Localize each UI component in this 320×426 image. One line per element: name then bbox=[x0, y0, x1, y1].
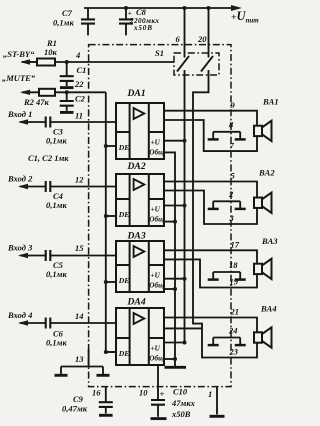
svg-text:24: 24 bbox=[228, 325, 238, 335]
wire ST-BY input arrow bbox=[22, 61, 37, 63]
svg-text:23: 23 bbox=[229, 347, 239, 357]
op-amp DA4 bbox=[116, 297, 164, 366]
ground (channel 1 left) bbox=[208, 138, 219, 141]
wire DA4 out+ (pin 21) to BA4 bbox=[164, 318, 257, 333]
ground (channel 4 left) bbox=[208, 344, 219, 347]
svg-text:21: 21 bbox=[230, 307, 240, 317]
wire pin 24 ground link of channel 4 bbox=[213, 338, 240, 345]
svg-text:S1: S1 bbox=[155, 48, 164, 58]
svg-text:BA1: BA1 bbox=[262, 97, 279, 107]
junction ground bus DA3 bbox=[173, 287, 177, 291]
svg-text:15: 15 bbox=[75, 243, 84, 253]
svg-text:9: 9 bbox=[231, 100, 236, 110]
ground (channel 3 left) bbox=[208, 278, 219, 281]
svg-text:+U: +U bbox=[151, 206, 161, 214]
wire DA1 Общ starting ground bus bbox=[164, 152, 175, 367]
switch S1.1 lower terminal (bus +U to DA blocks) bbox=[184, 70, 186, 343]
junction rail-C8 bbox=[124, 6, 128, 10]
wire C3 to DA1 input bbox=[50, 121, 116, 123]
svg-text:13: 13 bbox=[75, 354, 84, 364]
svg-text:C1: C1 bbox=[77, 65, 87, 75]
svg-text:Общ: Общ bbox=[149, 282, 164, 290]
wire R1 to pin 4 and S1 bbox=[55, 61, 174, 63]
ground (channel 4 right) bbox=[235, 344, 246, 347]
junction DE bus to DA2 bbox=[104, 214, 108, 218]
svg-text:0,1мк: 0,1мк bbox=[46, 136, 67, 146]
svg-text:0,1мк: 0,1мк bbox=[46, 269, 67, 279]
junction +U bus DA1 bbox=[183, 139, 187, 143]
junction C1 bbox=[65, 60, 69, 64]
svg-text:BA4: BA4 bbox=[260, 303, 277, 313]
junction ground bus DA2 bbox=[173, 220, 177, 224]
svg-text:6: 6 bbox=[176, 34, 181, 44]
svg-text:DA2: DA2 bbox=[127, 161, 146, 172]
junction DE bus to DA4 bbox=[104, 350, 108, 354]
svg-text:C9: C9 bbox=[73, 394, 84, 404]
svg-text:DE: DE bbox=[118, 143, 130, 152]
capacitor C5 (series input) bbox=[46, 250, 51, 261]
wire input 4 arrow bbox=[20, 322, 45, 324]
svg-text:4: 4 bbox=[75, 50, 80, 60]
speaker BA3 bbox=[254, 259, 272, 279]
svg-text:R2 47к: R2 47к bbox=[23, 97, 50, 107]
wire DA2 Общ to ground bus bbox=[164, 221, 175, 223]
svg-text:„MUTE”: „MUTE” bbox=[2, 73, 36, 83]
capacitor C9 bbox=[105, 387, 107, 402]
svg-text:+: + bbox=[160, 389, 165, 399]
svg-text:17: 17 bbox=[231, 240, 240, 250]
wire DA3 out+ (pin 17) to BA3 bbox=[164, 250, 257, 263]
switch S1.2 lower terminal (bus +U2) bbox=[193, 70, 209, 328]
svg-text:7: 7 bbox=[230, 140, 235, 150]
resistor R1 bbox=[37, 59, 55, 66]
wire C6 to DA4 input bbox=[50, 322, 116, 324]
svg-text:0,1мк: 0,1мк bbox=[53, 18, 74, 28]
speaker BA2 bbox=[254, 193, 272, 213]
svg-text:47мкх: 47мкх bbox=[171, 398, 196, 408]
wire +Uпит to S1.1 (pin 6 feed) bbox=[184, 8, 186, 58]
wire C5 to DA3 input bbox=[50, 255, 116, 257]
svg-text:C7: C7 bbox=[62, 8, 73, 18]
svg-text:C2: C2 bbox=[75, 94, 86, 104]
wire input 2 arrow bbox=[20, 186, 45, 188]
svg-text:+U: +U bbox=[151, 139, 161, 147]
ground (C9) bbox=[99, 414, 113, 417]
ground (C2) bbox=[60, 111, 74, 114]
switch S1.1 contact bbox=[177, 56, 189, 72]
svg-text:0,1мк: 0,1мк bbox=[46, 200, 67, 210]
capacitor C2 bbox=[66, 92, 68, 101]
svg-text:14: 14 bbox=[75, 311, 84, 321]
speaker BA4 bbox=[254, 327, 272, 347]
wire DA2 out+ (pin 5) to BA2 bbox=[164, 182, 257, 198]
svg-text:C8: C8 bbox=[136, 7, 147, 17]
svg-text:8: 8 bbox=[229, 120, 234, 130]
wire DA3 Общ to ground bus bbox=[164, 288, 175, 290]
resistor R2 bbox=[39, 89, 55, 96]
op-amp DA3 bbox=[116, 231, 164, 293]
svg-text:DE: DE bbox=[118, 210, 130, 219]
op-amp DA1 bbox=[116, 88, 164, 159]
wire DA1 out- (pin 7) to BA1 bbox=[164, 120, 257, 151]
svg-text:Вход 3: Вход 3 bbox=[7, 243, 33, 253]
svg-text:0,47мк: 0,47мк bbox=[62, 404, 88, 414]
node +Uпит arrow and label bbox=[231, 5, 242, 11]
svg-text:10к: 10к bbox=[44, 47, 58, 57]
capacitor C4 (series input) bbox=[46, 181, 51, 192]
wire pin 2 ground link of channel 2 bbox=[213, 201, 240, 208]
ground (channel 1 right) bbox=[235, 138, 246, 141]
wire DA2 out- (pin 3) to BA2 bbox=[164, 191, 257, 225]
wire pin 18 ground link of channel 3 bbox=[213, 272, 240, 279]
ground (C10) bbox=[151, 417, 167, 420]
wire input 1 arrow bbox=[20, 121, 45, 123]
wire C4 to DA2 input bbox=[50, 186, 116, 188]
wire DA4 +U to supply bus bbox=[164, 342, 185, 344]
junction +U bus DA3 bbox=[183, 277, 187, 281]
wire pin 1 to ground bbox=[216, 387, 218, 415]
wire DA4 Общ to ground bus bbox=[164, 358, 175, 360]
wire DE bus to DA2 DE input bbox=[106, 215, 116, 217]
svg-text:BA2: BA2 bbox=[258, 167, 275, 177]
svg-text:22: 22 bbox=[74, 79, 84, 89]
ground (C1) bbox=[60, 86, 74, 89]
svg-text:Общ: Общ bbox=[149, 216, 164, 224]
svg-text:20: 20 bbox=[197, 34, 207, 44]
capacitor C6 (series input) bbox=[46, 318, 51, 329]
svg-text:DA4: DA4 bbox=[127, 297, 146, 308]
wire DA3 out- (pin 19) to BA3 bbox=[164, 259, 257, 287]
svg-text:Вход 1: Вход 1 bbox=[7, 109, 32, 119]
wire input 3 arrow bbox=[20, 255, 45, 257]
junction rail-S1.1 bbox=[183, 6, 187, 10]
wire DE bus to DA4 DE input bbox=[106, 351, 116, 353]
junction C2 bbox=[65, 90, 69, 94]
capacitor C3 (series input) bbox=[46, 117, 51, 128]
wire DE bus to DA1 DE input bbox=[106, 145, 116, 147]
capacitor C10 (electrolytic) bbox=[157, 387, 159, 400]
op-amp DA2 bbox=[116, 161, 164, 226]
wire DA4 out- (pin 23) to BA4 bbox=[164, 328, 257, 357]
wire pin 13 to ground bbox=[61, 349, 103, 374]
ground (pin 1) bbox=[210, 415, 225, 418]
ground (channel 2 right) bbox=[235, 208, 246, 211]
switch S1 enclosure (dash-dot) bbox=[174, 53, 219, 75]
svg-text:Вход 2: Вход 2 bbox=[7, 174, 33, 184]
svg-text:DE: DE bbox=[118, 276, 130, 285]
svg-text:10: 10 bbox=[139, 388, 148, 398]
wire DA1 out+ (pin 9) to BA1 bbox=[164, 111, 257, 126]
svg-text:BA3: BA3 bbox=[261, 236, 278, 246]
svg-text:2: 2 bbox=[228, 189, 234, 199]
ground (pin 13 right) bbox=[97, 374, 110, 377]
svg-text:18: 18 bbox=[229, 260, 238, 270]
svg-text:х50В: х50В bbox=[133, 24, 152, 32]
wire DA3 +U to supply bus bbox=[164, 278, 185, 280]
svg-text:1: 1 bbox=[208, 389, 212, 399]
junction ground bus DA4 bbox=[173, 357, 177, 361]
ground (channel 2 left) bbox=[208, 208, 219, 211]
svg-text:+U: +U bbox=[151, 272, 161, 280]
capacitor C1 bbox=[66, 62, 68, 76]
bus DE (mute control to DA1-DA4) bbox=[106, 92, 116, 352]
wire MUTE input arrow bbox=[22, 91, 39, 93]
svg-text:16: 16 bbox=[92, 388, 101, 398]
wire DA2 +U to supply bus bbox=[164, 205, 185, 207]
speaker BA1 bbox=[254, 121, 272, 141]
svg-text:Вход 4: Вход 4 bbox=[7, 310, 32, 320]
svg-text:3: 3 bbox=[229, 213, 235, 223]
wire DE bus to DA3 DE input bbox=[106, 281, 116, 283]
junction DE bus to DA1 bbox=[104, 144, 108, 148]
svg-text:C10: C10 bbox=[173, 387, 188, 397]
wire R2 to pin 22 and DE bus bbox=[55, 91, 106, 93]
svg-text:11: 11 bbox=[75, 111, 83, 121]
svg-text:19: 19 bbox=[230, 277, 239, 287]
svg-text:DA3: DA3 bbox=[127, 231, 146, 242]
svg-text:+Uпит: +Uпит bbox=[231, 9, 259, 25]
wire pin 8 ground link of channel 1 bbox=[213, 132, 240, 139]
ground (channel 3 right) bbox=[235, 278, 246, 281]
svg-text:„ST-BY“: „ST-BY“ bbox=[3, 49, 35, 59]
svg-text:DA1: DA1 bbox=[127, 88, 146, 99]
ground (pin 13 left) bbox=[55, 374, 68, 377]
capacitor C7 bbox=[87, 8, 89, 19]
wire DA4 to pin 10 bbox=[157, 365, 159, 387]
IC boundary (dash-dot outline of DA1-DA4 chip) bbox=[89, 45, 231, 387]
svg-text:+U: +U bbox=[151, 345, 161, 353]
junction +U bus DA2 bbox=[183, 204, 187, 208]
junction DE bus to DA3 bbox=[104, 280, 108, 284]
svg-text:12: 12 bbox=[75, 175, 84, 185]
svg-text:0,1мк: 0,1мк bbox=[46, 338, 67, 348]
svg-text:C1, C2 1мк: C1, C2 1мк bbox=[28, 153, 69, 163]
ground (internal common bus bar) bbox=[165, 366, 187, 369]
junction rail-S1.2 bbox=[207, 6, 211, 10]
capacitor C8 (electrolytic) bbox=[125, 8, 127, 19]
wire +Uпит supply rail bbox=[84, 7, 234, 9]
wire DA1 +U to supply bus bbox=[164, 140, 185, 142]
junction +U bus DA4 bbox=[183, 341, 187, 345]
switch S1.2 contact bbox=[201, 56, 213, 72]
svg-text:5: 5 bbox=[231, 171, 236, 181]
wire +Uпит to S1.2 (pin 20 feed) bbox=[208, 8, 210, 58]
svg-text:Общ: Общ bbox=[149, 149, 164, 157]
svg-text:DE: DE bbox=[118, 349, 130, 358]
svg-text:х50В: х50В bbox=[171, 409, 191, 419]
svg-text:Общ: Общ bbox=[149, 355, 164, 363]
